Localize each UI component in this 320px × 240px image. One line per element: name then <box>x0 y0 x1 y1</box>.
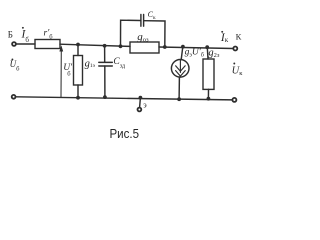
svg-text:Iк: Iк <box>220 32 229 44</box>
svg-text:К: К <box>236 32 242 42</box>
svg-text:э: э <box>143 100 147 109</box>
svg-text:Iб: Iб <box>21 29 30 45</box>
svg-text:r′б: r′б <box>44 29 54 41</box>
svg-text:Cк: Cк <box>148 10 156 21</box>
svg-text:gоз: gоз <box>137 31 149 44</box>
svg-text:Б: Б <box>8 29 13 39</box>
svg-text:Uб: Uб <box>10 59 21 72</box>
svg-text:Cзд: Cзд <box>113 57 125 70</box>
svg-text:Uк: Uк <box>232 66 244 77</box>
svg-text:g2з: g2з <box>208 48 220 60</box>
svg-text:gэU′б: gэU′б <box>185 48 204 59</box>
svg-text:g1э: g1э <box>85 59 96 70</box>
svg-text:Рис.5: Рис.5 <box>110 126 140 141</box>
